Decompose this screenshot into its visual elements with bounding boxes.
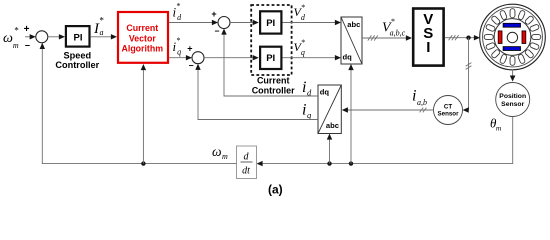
wire omega_m* input arrow into speed summing junction [25, 34, 36, 39]
wire i_d feedback to d-axis summing junction [221, 29, 318, 97]
label V_d* [294, 3, 306, 22]
svg-text:Sensor: Sensor [438, 111, 460, 118]
label i_d* [173, 2, 183, 23]
block abc to dq transformation [318, 85, 341, 134]
wire d-axis summing junction to current PI d [230, 20, 259, 25]
wire theta up into dq-abc block [348, 64, 353, 164]
label i_d feedback [302, 79, 312, 97]
dashed box current controller [251, 5, 291, 75]
block PI speed controller [66, 26, 90, 46]
svg-text:dq: dq [320, 88, 330, 97]
wire d/dt output along bottom to speed summing junction [40, 43, 237, 164]
slash marks on i_ab wire [420, 108, 427, 113]
wire PI d output to dq-abc block [283, 20, 342, 25]
magnet red right [522, 31, 526, 44]
summing junction d-axis (circle) [218, 17, 230, 29]
slash marks on CT drop wire [466, 63, 472, 70]
wire summing junction to speed PI [48, 34, 65, 39]
wire speed PI to Current Vector Algorithm [91, 34, 117, 39]
svg-text:−: − [25, 41, 30, 51]
block d/dt [237, 146, 257, 179]
label V_abc* [382, 17, 406, 38]
wire dq-abc block to VSI [362, 35, 412, 40]
svg-text:Position: Position [499, 93, 526, 100]
svg-text:Current: Current [257, 75, 290, 85]
wire CVA i_q* output to q-axis summing junction [169, 55, 192, 60]
svg-text:PI: PI [74, 33, 83, 44]
label Current Controller [252, 75, 295, 95]
svg-text:Algorithm: Algorithm [122, 44, 164, 54]
label i_ab [412, 88, 427, 107]
block PI current controller q-axis [260, 47, 281, 69]
motor stator outer circle [480, 4, 546, 70]
wire node down to CT sensor [463, 38, 469, 113]
block PI current controller d-axis [260, 11, 281, 33]
svg-text:PI: PI [266, 18, 275, 29]
label omega_m feedback [212, 144, 228, 161]
node junction theta to abc-dq block [327, 161, 331, 165]
wire motor shaft to position sensor [510, 70, 516, 82]
svg-text:dq: dq [343, 53, 353, 62]
motor rotor bore circle [494, 19, 531, 56]
label I_a* current command [93, 15, 104, 37]
label i_q feedback [302, 101, 312, 120]
motor shaft circle [507, 32, 517, 42]
svg-text:Current: Current [126, 23, 158, 33]
node junction theta to dq-abc block [349, 161, 353, 165]
wire i_q feedback to q-axis summing junction [195, 64, 318, 120]
svg-text:Vector: Vector [129, 33, 156, 43]
magnet blue bottom [503, 47, 520, 51]
label i_q* [173, 36, 182, 57]
svg-text:abc: abc [347, 20, 360, 29]
svg-text:abc: abc [326, 121, 339, 130]
svg-text:PI: PI [266, 53, 275, 64]
svg-text:−: − [215, 26, 220, 36]
wire CVA i_d* output to d-axis summing junction [169, 20, 218, 25]
label Speed Controller [55, 51, 99, 70]
svg-text:+: + [211, 9, 216, 19]
svg-text:Sensor: Sensor [501, 101, 524, 108]
magnet blue top [503, 23, 520, 27]
motor stator rim inner ring [483, 7, 543, 67]
block VSI inverter [413, 9, 443, 66]
svg-text:+: + [187, 44, 192, 54]
magnet red left [498, 31, 502, 44]
wire theta up into abc-dq block [327, 134, 332, 164]
svg-text:Controller: Controller [55, 60, 99, 70]
wire q-axis summing junction to current PI q [204, 55, 259, 60]
svg-text:+: + [24, 24, 30, 35]
slash marks 3-phase on V_abc* wire [368, 35, 378, 40]
slash marks 3-phase on VSI output [449, 35, 459, 40]
svg-text:I: I [426, 39, 430, 56]
label V_q* [294, 38, 305, 57]
wire VSI to motor [445, 35, 481, 40]
CT sensor circle [434, 96, 463, 125]
block Current Vector Algorithm (red) [118, 12, 168, 63]
position sensor circle [496, 83, 530, 117]
summing junction speed (circle) [36, 31, 48, 43]
svg-text:Controller: Controller [252, 85, 295, 95]
summing junction q-axis (circle) [192, 52, 204, 64]
block dq to abc transformation [341, 17, 362, 64]
wire omega up into CVA block [141, 64, 146, 164]
svg-text:dt: dt [242, 166, 250, 177]
motor stator slots (16) [484, 9, 541, 66]
label omega_m* reference speed [3, 26, 19, 50]
wire PI q output to dq-abc block [283, 55, 342, 60]
svg-text:(a): (a) [268, 182, 283, 196]
label theta_m [490, 116, 502, 133]
wire CT sensor to abc-dq block [342, 107, 434, 112]
svg-text:CT: CT [444, 103, 452, 110]
wire position sensor down and along bottom to d/dt [257, 117, 513, 167]
label (a) caption [268, 182, 283, 196]
node junction omega to CVA [141, 161, 145, 165]
node junction on VSI output [466, 36, 470, 40]
